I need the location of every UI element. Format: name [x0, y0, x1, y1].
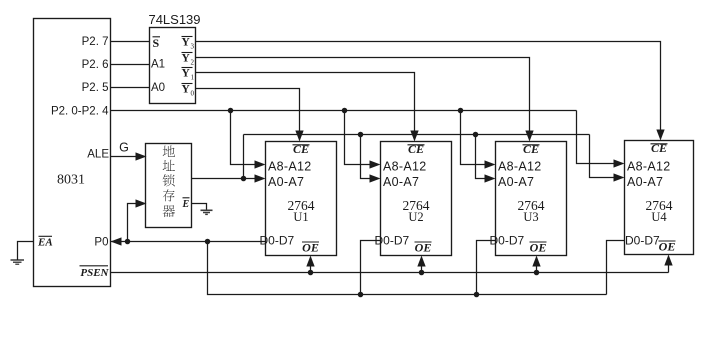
svg-text:U1: U1: [293, 210, 308, 224]
svg-text:D0-D7: D0-D7: [375, 233, 410, 247]
wire A8-A12 drop to U2: [345, 111, 372, 165]
svg-text:A0: A0: [151, 82, 165, 94]
node junction data bus drop: [205, 239, 211, 245]
wire PSEN to OE of U4: [668, 263, 670, 273]
svg-text:74LS139: 74LS139: [148, 12, 200, 27]
svg-text:E: E: [182, 199, 190, 210]
wire ALE to latch G: [111, 156, 138, 158]
wire PSEN to OE of U1: [310, 264, 312, 273]
svg-text:A8-A12: A8-A12: [268, 160, 312, 174]
wire data bus riser to U4 D0-D7: [607, 241, 625, 295]
latch label char 存: [163, 189, 175, 201]
IC 74LS139 decoder body: [150, 28, 196, 104]
wire PSEN to OE of U3: [536, 264, 538, 273]
svg-text:CE: CE: [523, 142, 539, 156]
node junction A8 bus U2: [342, 108, 348, 114]
node junction A0 bus U3: [473, 132, 479, 138]
wire latch E to ground: [192, 204, 207, 210]
latch label char 地: [163, 145, 175, 157]
wire Y1 to CE of U2: [196, 73, 415, 133]
IC 8031 microcontroller body: [34, 19, 111, 287]
svg-text:A1: A1: [151, 59, 165, 71]
svg-text:D0-D7: D0-D7: [625, 233, 660, 247]
svg-text:U4: U4: [651, 210, 667, 224]
svg-text:OE: OE: [302, 241, 319, 255]
svg-text:3: 3: [191, 42, 195, 50]
wire U3 D0-D7 drop: [477, 241, 496, 295]
svg-text:OE: OE: [659, 240, 676, 254]
wire PSEN to OE of U2: [421, 264, 423, 273]
wire latch output A0-A7 to U1: [192, 178, 257, 180]
wire data bus vertical and bottom run: [208, 242, 607, 295]
ground at EA: [11, 259, 25, 261]
wire A0-A7 drop to U4: [590, 135, 616, 178]
svg-text:EA: EA: [37, 236, 53, 248]
wire EA to ground: [18, 242, 34, 260]
svg-text:D0-D7: D0-D7: [490, 233, 525, 247]
svg-text:Y: Y: [182, 68, 191, 80]
wire A8-A12 drop to U4: [577, 111, 616, 164]
svg-text:D0-D7: D0-D7: [260, 233, 295, 247]
EPROM U4 body 2764: [625, 141, 694, 255]
svg-text:2: 2: [191, 58, 195, 66]
latch label char 器: [163, 205, 175, 217]
node junction data bus U3: [474, 292, 480, 298]
svg-text:PSEN: PSEN: [80, 267, 109, 279]
wire A0-A7 bus riser: [243, 135, 245, 179]
svg-text:ALE: ALE: [87, 149, 109, 161]
svg-text:P2. 6: P2. 6: [82, 59, 109, 71]
node junction latch output: [241, 176, 247, 182]
wire A8-A12 drop to U3: [461, 111, 487, 165]
svg-text:G: G: [119, 141, 129, 155]
svg-text:CE: CE: [651, 141, 667, 155]
svg-text:U3: U3: [523, 210, 538, 224]
node junction latch input branch: [125, 239, 131, 245]
wire A8-A12 drop to U1: [231, 111, 257, 165]
svg-text:OE: OE: [530, 241, 547, 255]
svg-text:A0-A7: A0-A7: [627, 175, 663, 189]
node junction PSEN U2: [419, 270, 425, 276]
wire Y3 to CE of U4: [196, 42, 661, 132]
svg-text:A8-A12: A8-A12: [383, 160, 427, 174]
svg-text:P0: P0: [94, 236, 108, 248]
node junction A0 bus U2: [358, 132, 364, 138]
svg-text:U2: U2: [408, 210, 423, 224]
EPROM U3 body 2764: [496, 142, 567, 256]
latch label char 址: [163, 160, 175, 171]
svg-text:CE: CE: [293, 142, 309, 156]
node junction A8 bus U3: [458, 108, 464, 114]
svg-text:S: S: [153, 36, 160, 50]
svg-text:P2. 5: P2. 5: [82, 82, 109, 94]
node junction PSEN U1: [308, 270, 314, 276]
svg-text:A0-A7: A0-A7: [383, 175, 419, 189]
wire A0-A7 bus: [244, 134, 590, 136]
wire P0 data bus to U1 D0-D7: [111, 241, 266, 243]
wire PSEN run: [111, 272, 669, 274]
address latch box (address latch 地址锁存器): [146, 144, 192, 228]
wire P2.5 to A0: [111, 87, 150, 89]
wire P2.0-P2.4 address bus A8-A12: [111, 110, 577, 112]
latch label char 锁: [163, 174, 175, 186]
node junction PSEN U3: [534, 270, 540, 276]
node junction data bus U2: [358, 292, 364, 298]
svg-text:P2. 0-P2. 4: P2. 0-P2. 4: [51, 106, 109, 118]
wire U2 D0-D7 drop: [361, 241, 381, 295]
svg-text:Y: Y: [182, 84, 191, 96]
svg-text:Y: Y: [182, 37, 191, 49]
svg-text:Y: Y: [182, 53, 191, 65]
node junction A8 bus U1: [228, 108, 234, 114]
svg-text:8031: 8031: [57, 173, 85, 188]
wire P0 branch to latch input: [128, 204, 138, 242]
ground at latch E: [201, 209, 213, 211]
svg-text:OE: OE: [415, 241, 432, 255]
svg-text:0: 0: [191, 89, 195, 97]
svg-text:P2. 7: P2. 7: [82, 36, 109, 48]
svg-text:A8-A12: A8-A12: [498, 160, 542, 174]
EPROM U1 body 2764: [266, 142, 337, 256]
wire A0-A7 drop to U2: [361, 135, 372, 179]
svg-text:CE: CE: [408, 142, 424, 156]
svg-text:A0-A7: A0-A7: [498, 175, 534, 189]
wire P2.6 to A1: [111, 64, 150, 66]
wire Y0 to CE of U1: [196, 89, 300, 133]
wire A0-A7 drop to U3: [476, 135, 487, 179]
EPROM U2 body 2764: [381, 142, 452, 256]
wire P2.7 to S: [111, 41, 150, 43]
svg-text:A8-A12: A8-A12: [627, 160, 671, 174]
wire Y2 to CE of U3: [196, 58, 530, 133]
svg-text:1: 1: [191, 73, 195, 81]
svg-text:A0-A7: A0-A7: [268, 175, 304, 189]
